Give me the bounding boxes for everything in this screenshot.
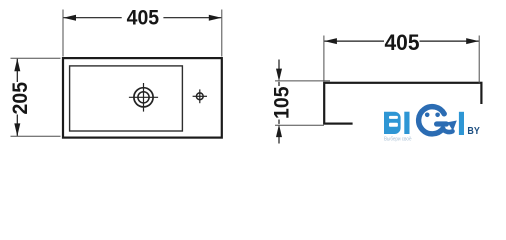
dimension 105 (side view, left) extension lines — [275, 81, 330, 125]
logo letter I (second) — [459, 112, 464, 135]
dimension 405 (side view, top) dimension line with arrows — [324, 38, 479, 44]
dimension 405 (plan view, top) extension lines — [63, 10, 222, 57]
dimension 105 (side view) value label — [270, 86, 293, 119]
drain hole with centerline cross — [129, 83, 158, 112]
faucet hole with centerline cross — [193, 89, 207, 103]
dimension 105 (side view, left) dimension line with outside arrows — [276, 60, 282, 144]
dimension 405 (side view, top) extension lines — [324, 36, 479, 84]
dimension 205 (plan view) value label — [9, 82, 32, 115]
svg-text:405: 405 — [127, 7, 160, 30]
svg-text:205: 205 — [9, 82, 32, 115]
svg-text:105: 105 — [270, 86, 293, 119]
logo letter B — [384, 112, 401, 134]
dimension 405 (plan view, top) dimension line with arrows — [63, 15, 221, 21]
plan view: basin bowl inner rectangle — [70, 66, 183, 131]
BiGi.by logo white backdrop — [353, 104, 506, 147]
logo suffix BY — [467, 126, 479, 137]
svg-text:Выбери своё: Выбери своё — [384, 137, 412, 143]
logo letter G (smiley circle with arrow) — [419, 107, 457, 134]
svg-text:405: 405 — [385, 30, 420, 55]
svg-text:BY: BY — [467, 126, 479, 137]
dimension 405 (plan view) value label — [127, 7, 160, 30]
dimension 205 (plan view, left) extension lines — [11, 58, 61, 136]
dimension 405 (side view) value label — [385, 30, 420, 55]
logo letter I (first) — [404, 112, 409, 134]
dimension 205 (plan view, left) dimension line with arrows — [14, 59, 20, 137]
side view: basin profile outline — [324, 83, 481, 124]
logo tagline — [384, 137, 412, 143]
plan view: washbasin outer rim — [63, 58, 222, 138]
